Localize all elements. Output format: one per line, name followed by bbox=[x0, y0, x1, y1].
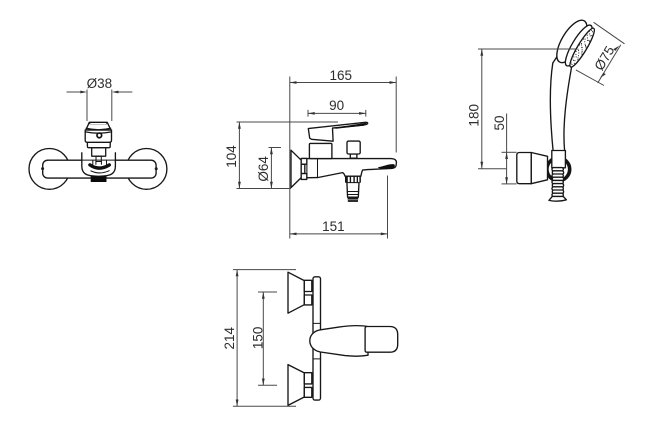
svg-text:104: 104 bbox=[224, 145, 239, 168]
svg-text:180: 180 bbox=[467, 104, 482, 127]
svg-text:214: 214 bbox=[222, 326, 237, 349]
svg-text:50: 50 bbox=[492, 115, 507, 130]
svg-text:151: 151 bbox=[322, 219, 345, 234]
svg-text:Ø38: Ø38 bbox=[87, 76, 113, 91]
svg-text:90: 90 bbox=[329, 98, 344, 113]
svg-text:Ø64: Ø64 bbox=[256, 156, 271, 182]
svg-text:165: 165 bbox=[330, 68, 353, 83]
svg-text:150: 150 bbox=[250, 327, 265, 350]
